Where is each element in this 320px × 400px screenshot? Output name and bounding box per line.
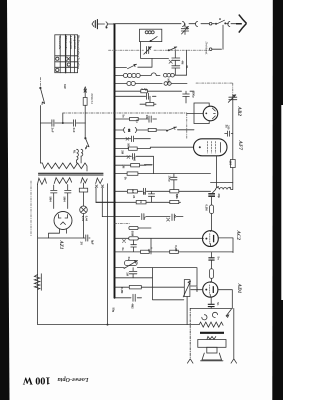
svg-text:Kurzwelle: Kurzwelle [58, 36, 62, 50]
cap last [133, 294, 135, 301]
row 138.7 line [115, 138, 151, 140]
KW switch [40, 87, 45, 104]
cap 100p drop [171, 174, 177, 192]
gang vertical dash to AF7 [186, 113, 188, 139]
cap tone [129, 268, 137, 278]
capacitor 2nF b [73, 120, 75, 127]
tube AB2 [203, 106, 218, 121]
x terminal marks [95, 185, 104, 188]
field coil zigzag [199, 322, 223, 327]
pot down wire [186, 297, 188, 325]
heater line [38, 237, 90, 239]
gang dash-dot link (middle) [62, 113, 64, 123]
antenna plug pair [183, 21, 198, 26]
svg-text:u: u [219, 17, 221, 21]
svg-text:0,5M: 0,5M [205, 205, 209, 212]
capacitor hv2 [65, 185, 71, 209]
coil pair left [77, 148, 86, 164]
svg-text:100: 100 [226, 125, 229, 130]
cap det [208, 194, 215, 205]
svg-text:Loewe-Opta: Loewe-Opta [58, 376, 90, 383]
left vertical wire [39, 106, 41, 164]
coupling cap 300p [183, 91, 190, 103]
AF7 cathode cap line [225, 133, 233, 135]
svg-text:50µ: 50µ [112, 308, 116, 313]
resistor row91 [141, 90, 148, 93]
dial lamp [80, 206, 88, 214]
switch row130 [166, 127, 194, 131]
wire to lamp [83, 183, 85, 206]
svg-text:0,2M: 0,2M [174, 245, 178, 252]
node dot [62, 122, 64, 124]
vertical return wire [107, 184, 109, 325]
svg-text:Langwelle: Langwelle [69, 36, 73, 49]
variable capacitor C-ant on gang line [144, 47, 152, 55]
resistor 0,3M [129, 286, 141, 289]
switch in box [150, 37, 157, 42]
switch on gang line [168, 47, 177, 51]
cap on line b [142, 214, 144, 220]
AD1 anode down [218, 290, 233, 309]
screen line with resistors [115, 190, 211, 192]
cap AD1 grid [208, 258, 214, 269]
cap row138 [126, 136, 134, 142]
antenna switch u [215, 20, 226, 24]
secondary winding 4 [96, 178, 103, 184]
svg-text:5M4: 5M4 [63, 197, 67, 203]
wire left secondary down [37, 185, 39, 237]
cathode cap [208, 297, 215, 308]
resistor on line a [136, 201, 146, 204]
speaker top line [190, 307, 232, 309]
node dot [107, 324, 109, 326]
svg-text:1M: 1M [122, 165, 126, 169]
svg-text:300p: 300p [191, 92, 195, 98]
svg-text:6ER154: 6ER154 [90, 94, 94, 105]
row 130 jack line [115, 129, 167, 131]
cap below [131, 240, 137, 251]
cap between a/b [148, 192, 154, 203]
right page-edge black bar [272, 0, 283, 400]
earth switch vertical wire [212, 25, 223, 49]
speaker magnet [207, 347, 217, 353]
detector coil [213, 188, 233, 193]
plug ( [228, 21, 230, 26]
speaker cone [201, 353, 224, 361]
resistor 6ER154 column arrow [84, 87, 86, 98]
cap row119 [149, 116, 151, 122]
volume pot [183, 280, 190, 297]
svg-text:2V: 2V [79, 242, 83, 246]
svg-text:5n: 5n [216, 302, 220, 305]
svg-text:2M: 2M [121, 150, 125, 154]
svg-text:Schalter: Schalter [76, 58, 80, 70]
resistor row130 [148, 128, 156, 131]
row 165.2 line [115, 164, 147, 166]
svg-text:NL: NL [73, 150, 77, 154]
AB2 shield box [194, 103, 209, 124]
AZ1 pins [49, 229, 67, 238]
ground / aerial symbol top-left [92, 20, 105, 29]
tube AC2 [203, 231, 219, 247]
wire to AC2 grid [211, 214, 213, 231]
svg-text:AF7: AF7 [237, 140, 243, 151]
svg-text:20p: 20p [217, 194, 221, 199]
svg-text:5M4: 5M4 [49, 197, 53, 203]
svg-text:AD1: AD1 [236, 283, 242, 294]
svg-text:50k: 50k [175, 195, 179, 200]
svg-text:100 W: 100 W [22, 375, 51, 386]
cap row156 [127, 154, 134, 160]
coil line LW [115, 81, 188, 85]
svg-text:6: 6 [228, 187, 232, 189]
IF line to detector [211, 182, 233, 184]
resistor 50k [170, 190, 179, 193]
resistor c1 [141, 250, 150, 253]
svg-text:AB2: AB2 [236, 106, 242, 117]
aerial series trimmer capacitor [181, 24, 188, 35]
wire to AD1 [211, 278, 213, 282]
x junction mark [123, 240, 126, 243]
line2 [115, 268, 184, 300]
coil L-osc [145, 31, 154, 34]
grid line row (96) [115, 95, 157, 97]
secondary winding 1 [37, 178, 46, 184]
heater branch line b [102, 216, 183, 218]
cap small [143, 188, 145, 194]
resistor det [210, 205, 214, 214]
core bar [200, 332, 224, 334]
svg-text:2nF: 2nF [51, 128, 55, 133]
barretter resistor [34, 274, 41, 291]
anode line AC2 [115, 238, 202, 254]
KW switch dash lead [39, 78, 41, 88]
resistor lamp feed [79, 188, 87, 192]
cap on line b2 [167, 214, 175, 221]
2nF cap line [40, 122, 85, 124]
last bus branch [115, 297, 142, 299]
svg-text:50M: 50M [195, 287, 199, 292]
gang dash-dot link line (top) [109, 49, 209, 51]
antenna selector plug o [209, 22, 212, 25]
AF7 pin down [215, 156, 217, 188]
band switch left [85, 138, 89, 149]
grid line AD1 row [115, 286, 184, 288]
svg-text:MW: MW [167, 79, 171, 84]
svg-text:10k: 10k [145, 115, 149, 120]
resistor a [127, 190, 137, 193]
right rail dash top [196, 83, 233, 94]
svg-text:0,44: 0,44 [85, 216, 89, 222]
svg-text:0,1: 0,1 [135, 120, 138, 124]
top aerial wire [114, 23, 237, 25]
svg-text:50M: 50M [131, 231, 135, 237]
coupling line AD1 [115, 252, 234, 257]
coil line MW [115, 73, 187, 78]
secondary winding 3 [81, 178, 87, 183]
svg-text:4M: 4M [181, 61, 185, 66]
tone pot line [115, 268, 198, 286]
svg-text:3k4: 3k4 [131, 189, 134, 194]
row 119 line [115, 118, 157, 120]
resistor row119 [130, 117, 139, 120]
loop / mains transformer primary zigzag [40, 163, 87, 171]
heater branch line a [96, 201, 116, 203]
speaker leg right [231, 308, 237, 363]
speaker leg left [189, 308, 191, 358]
resistor 150 on rail [230, 160, 235, 168]
tube AF7 [194, 139, 228, 156]
svg-text:2nF: 2nF [72, 128, 76, 133]
resistor 0,1 on line a [170, 200, 179, 203]
row 156.3 line [115, 156, 154, 173]
output box [198, 340, 226, 348]
resistor 2M [129, 147, 138, 150]
svg-text:100: 100 [133, 157, 136, 162]
resistor 0,2M [170, 250, 179, 253]
svg-text:5n: 5n [217, 257, 221, 260]
resistor 6ER154 [83, 98, 87, 106]
earth plug o [209, 48, 212, 51]
jockey arm [226, 309, 231, 317]
wire lamp down [83, 214, 85, 238]
row 148.6 line [115, 147, 194, 148]
osc section right wire [186, 50, 188, 75]
waveband table [55, 35, 78, 73]
resistor 1M [131, 164, 140, 167]
svg-text:8µF: 8µF [91, 240, 95, 245]
cap row96 [142, 89, 149, 100]
tone pot [124, 260, 138, 268]
left drop wire [37, 237, 39, 323]
tube AD1 [203, 282, 218, 298]
voltage dot [106, 27, 108, 29]
svg-text:24: 24 [132, 195, 136, 198]
svg-text:KW: KW [63, 84, 67, 89]
HT line with resistor 5k [115, 173, 211, 175]
svg-text:6a: 6a [121, 248, 125, 251]
wire below [84, 105, 86, 137]
left page-edge black bar [0, 0, 10, 400]
svg-text:Gegentakt: Gegentakt [73, 36, 77, 49]
main bus (chassis rail) [114, 24, 116, 298]
svg-text:5a: 5a [122, 115, 126, 118]
resistor h1 [129, 226, 138, 229]
AD1 grid wire to pot [191, 289, 203, 291]
bottom return wire [38, 323, 200, 325]
oscillator trimmer on rail [228, 95, 237, 103]
svg-text:AC2: AC2 [235, 230, 241, 241]
oscillator coil box [140, 29, 162, 41]
svg-text:5k: 5k [124, 177, 128, 181]
antenna arrow [236, 15, 247, 33]
jack symbol [124, 127, 137, 132]
capacitor 8uF [86, 235, 88, 241]
resistor h2 [129, 237, 139, 240]
svg-text:0,3M: 0,3M [120, 287, 124, 294]
hum coil curls [202, 312, 218, 320]
svg-text:Mittelwelle: Mittelwelle [64, 36, 68, 50]
svg-text:AZ1: AZ1 [58, 240, 63, 250]
capacitor hv1 [51, 185, 57, 209]
svg-text:1M: 1M [126, 272, 130, 276]
svg-text:5n: 5n [143, 192, 146, 195]
padder capacitors stack [172, 50, 180, 75]
row 91 line [115, 90, 195, 92]
secondary winding 2 [54, 178, 71, 184]
capacitor 2nF a [52, 120, 54, 127]
dash stub [115, 223, 130, 225]
svg-text:6,3V: 6,3V [81, 216, 85, 222]
svg-text:2: 2 [128, 129, 130, 133]
wire from box down [141, 42, 169, 59]
winding4 taps [96, 188, 102, 217]
row 104 short link [140, 96, 156, 104]
plug connector [106, 22, 114, 27]
svg-text:100p: 100p [168, 176, 172, 182]
band switch wire 1 [115, 58, 153, 68]
x contact mark [169, 60, 172, 63]
bus junction dots [114, 67, 116, 299]
svg-text:Wellenschalter: Wellenschalter [76, 35, 80, 58]
loop antenna dash side [30, 181, 32, 236]
transformer core [39, 173, 104, 175]
rectifier tube AZ1 [54, 212, 72, 230]
table circle marks [56, 57, 71, 71]
svg-text:4M2: 4M2 [131, 304, 135, 310]
svg-text:150: 150 [229, 161, 233, 166]
grid resistor AD1 [210, 269, 214, 279]
AC2 anode out [218, 238, 233, 253]
right rail [232, 95, 234, 190]
voice coil [207, 337, 216, 340]
svg-text:Drehkond.: Drehkond. [205, 41, 209, 56]
